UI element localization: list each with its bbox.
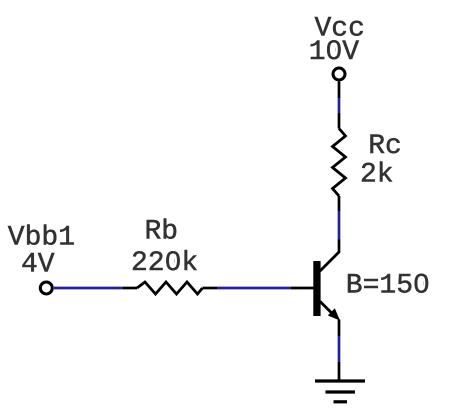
svg-text:10V: 10V — [309, 37, 360, 68]
resistor Rb — [137, 282, 203, 294]
lead Rc top — [338, 113, 341, 129]
transistor Q1 emitter diagonal — [320, 301, 336, 317]
resistor Rc — [333, 129, 346, 197]
svg-text:Rc: Rc — [368, 131, 402, 162]
transistor Q1 base bar — [313, 261, 320, 316]
svg-text:4V: 4V — [21, 250, 55, 281]
lead Rb left — [123, 287, 137, 290]
ground symbol line 3 — [334, 400, 348, 403]
terminal Vbb1 — [40, 282, 52, 294]
wire Vbb1 to Rb (blue) — [54, 287, 123, 290]
collector pin vertical — [338, 240, 341, 253]
wire Vcc to Rc (blue) — [338, 98, 341, 113]
svg-text:220k: 220k — [131, 248, 198, 279]
ground pin vertical — [338, 362, 341, 380]
svg-text:Rb: Rb — [145, 217, 179, 248]
terminal Vcc — [333, 68, 345, 80]
wire emitter to ground (blue) — [338, 336, 341, 362]
svg-text:B=150: B=150 — [346, 271, 430, 302]
transistor Q1 collector diagonal — [320, 252, 340, 272]
pin stub below Vcc terminal — [338, 82, 341, 99]
base pin — [291, 287, 314, 290]
emitter pin vertical — [338, 320, 341, 337]
wire Rc to collector (blue) — [338, 211, 341, 240]
svg-text:2k: 2k — [360, 160, 394, 191]
lead Rb right — [203, 287, 218, 290]
wire Rb to base (blue) — [217, 287, 291, 290]
transistor Q1 emitter arrowhead — [328, 308, 340, 320]
ground symbol line 1 — [315, 379, 365, 382]
ground symbol line 2 — [326, 390, 356, 393]
lead Rc bottom — [338, 196, 341, 211]
